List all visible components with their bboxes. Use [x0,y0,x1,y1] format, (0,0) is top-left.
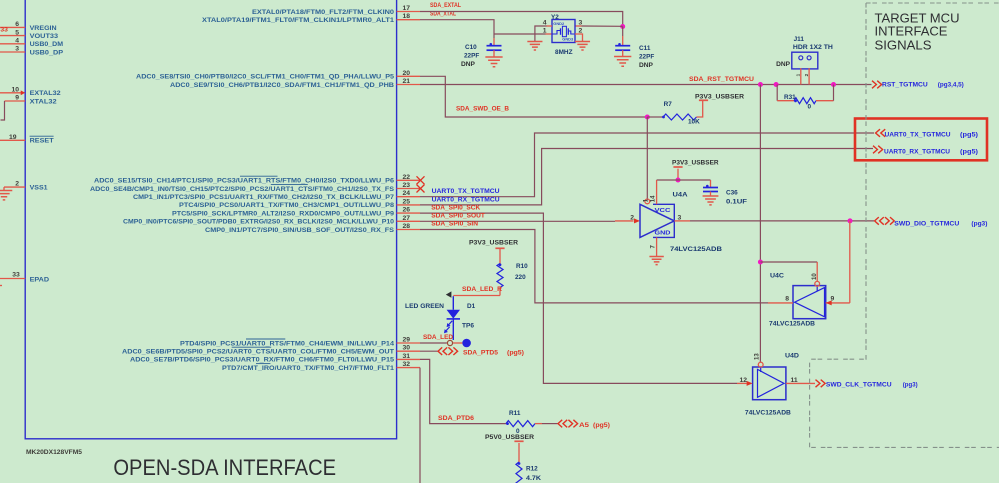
pin 22 stub [397,179,420,181]
pin 26 stub [397,212,420,214]
svg-text:4.7K: 4.7K [526,475,541,482]
svg-text:SWD_CLK_TGTMCU: SWD_CLK_TGTMCU [826,381,892,388]
svg-text:2: 2 [804,73,809,76]
svg-text:6: 6 [15,21,19,28]
svg-text:13: 13 [754,353,760,360]
node junction R31 left [774,82,779,87]
header J11 body [792,52,818,69]
svg-text:SDA_SPI0_SIN: SDA_SPI0_SIN [431,221,478,228]
U4D output lead pin 11 [786,382,815,384]
svg-text:(pg5): (pg5) [960,132,978,139]
svg-text:UART0_RX_TGTMCU: UART0_RX_TGTMCU [432,196,500,203]
svg-text:SDA_LED_R: SDA_LED_R [462,286,502,293]
svg-text:DNP: DNP [776,61,791,68]
svg-text:VSS1: VSS1 [30,185,48,192]
wire branch to U4C enable [760,261,817,263]
wire pin31 SDA_PTD6 down and right [420,359,506,423]
pin 21 stub [397,84,420,86]
red highlight box around UART ports [855,119,987,161]
node SWD_DIO junction [848,218,853,223]
svg-text:VOUT33: VOUT33 [30,33,59,40]
pin 4 USB0_DM wire [0,43,25,45]
pin 5 VOUT33 wire [0,35,25,37]
svg-text:R11: R11 [509,410,521,417]
wire rail to U4A VCC and C36 [657,179,711,181]
supply P3V3_USBSER above U4A [673,166,682,168]
wire R11 to port A5 [542,423,558,425]
pin 32 stub [397,367,420,369]
node EXTAL junction [620,24,625,29]
crystal Y2 body [552,20,575,43]
wire XTAL32 net to left edge [1,101,5,120]
svg-text:Y2: Y2 [551,14,559,21]
ground under C36 [703,196,719,205]
LED cathode lead [452,319,454,340]
U4C output lead pin 8 [768,302,793,304]
dashed target-interface border [866,2,999,4]
op-amp buffer U4A triangle [640,204,674,237]
svg-text:11: 11 [791,377,798,384]
U4D input lead pin 12 [737,382,747,384]
supply P3V3_USBSER above R10 [495,247,504,249]
J11 pin 1 circle [799,56,803,60]
svg-text:10: 10 [812,273,818,280]
node enable branch junction [758,260,763,265]
svg-text:EPAD: EPAD [30,276,50,283]
ground at crystal pin 2 [575,42,590,51]
svg-text:8: 8 [785,295,789,302]
svg-text:U4C: U4C [770,273,784,280]
wire C11 lead from junction [622,27,624,37]
pin 27 stub [397,220,420,222]
svg-text:R10: R10 [516,263,528,270]
wire SDA_SPI0_SOUT pin27 to U4A input [420,220,615,222]
svg-text:20: 20 [403,70,411,77]
svg-text:P3V3_USBSER: P3V3_USBSER [469,240,518,247]
U4A enable pin 1 wire [646,117,648,199]
U4D enable circle pin 13 [758,362,763,367]
svg-text:C10: C10 [465,44,477,51]
svg-text:SDA_SPI0_SOUT: SDA_SPI0_SOUT [431,213,486,220]
R11 right lead [535,423,542,425]
test point TP6 dot [462,339,471,348]
wire SDA_LED_R to LED anode [453,295,500,297]
node OE junction [645,115,650,120]
LED D1 anode lead [452,296,454,310]
svg-text:C11: C11 [639,45,651,52]
svg-text:HDR 1X2 TH: HDR 1X2 TH [793,44,833,51]
svg-text:23: 23 [403,182,411,189]
svg-text:J11: J11 [794,36,805,43]
svg-text:U4D: U4D [785,352,799,359]
svg-text:(pg5): (pg5) [960,149,978,156]
svg-text:31: 31 [403,353,411,360]
svg-text:SDA_PTD6: SDA_PTD6 [438,415,474,422]
svg-text:USB0_DP: USB0_DP [30,49,64,56]
svg-text:R31: R31 [784,94,796,101]
wire enable net vertical from RST junction [759,85,761,363]
pin 23 stub [397,188,420,190]
wire crystal pin1 to XTAL net [494,33,546,35]
LED emission arrows [448,321,452,326]
resistor R11 [506,421,535,427]
no-connect X pin 23 [417,185,425,193]
node junction R31 right [831,82,836,87]
svg-text:XTAL32: XTAL32 [30,98,58,105]
op-amp buffer U4D body [753,367,786,400]
svg-text:2: 2 [630,214,634,221]
svg-text:SDA_SWD_OE_B: SDA_SWD_OE_B [456,106,509,113]
svg-text:GND2: GND2 [553,21,565,26]
port RST_TGTMCU chevron [872,81,882,89]
wire supply to rail [677,169,679,180]
U4A input lead pin 2 [615,220,634,222]
U4D triangle [758,369,785,397]
svg-text:2: 2 [15,181,19,188]
svg-text:ADC0_SE6B/PTD5/SPI0_PCS2/UART0: ADC0_SE6B/PTD5/SPI0_PCS2/UART0_CTS/UART0… [122,349,394,356]
pin 17 stub [397,11,420,13]
port SWD_CLK_TGTMCU chevron [816,380,826,388]
wire junction to R7 [647,116,663,118]
svg-text:28: 28 [403,223,411,230]
svg-text:17: 17 [403,5,411,12]
wire SDA_SWD_OE_B from pin20 [420,76,647,117]
svg-text:XTAL0/PTA19/FTM1_FLT0/FTM_CLKI: XTAL0/PTA19/FTM1_FLT0/FTM_CLKIN1/LPTMR0_… [202,17,395,24]
svg-text:VCC: VCC [655,208,672,214]
U4A output lead pin 3 [674,220,690,222]
svg-text:74LVC125ADB: 74LVC125ADB [745,410,791,417]
supply P5V0_USBSER bar [514,440,523,442]
R10 bottom lead [499,288,501,296]
svg-text:29: 29 [403,337,411,344]
pin 2 VSS1 wire [4,186,25,188]
svg-text:9: 9 [15,95,19,102]
resistor R12 (clipped at bottom) [516,462,522,483]
svg-text:3: 3 [579,20,583,27]
ground at crystal pin 4 [527,42,542,51]
svg-text:PTC4/SPI0_PCS0/UART1_TX/FTM0_C: PTC4/SPI0_PCS0/UART1_TX/FTM0_CH3/CMP1_OU… [179,202,394,209]
resistor R7 [663,114,696,120]
wire pin29 to test pad [420,342,447,344]
svg-text:MK20DX128VFM5: MK20DX128VFM5 [26,449,83,456]
pin 24 stub [397,196,420,198]
svg-text:SIGNALS: SIGNALS [875,39,932,53]
svg-text:P3V3_USBSER: P3V3_USBSER [672,159,719,166]
svg-text:P5V0_USBSER: P5V0_USBSER [485,434,534,441]
svg-text:22PF: 22PF [639,54,654,61]
svg-text:30: 30 [403,345,411,352]
node junction enable riser [758,82,763,87]
svg-text:UART0_TX_TGTMCU: UART0_TX_TGTMCU [432,188,500,195]
capacitor C11 [615,45,630,47]
svg-text:33: 33 [0,27,8,34]
op-amp buffer U4C body [793,286,826,319]
overline UART0_RTS row29 [246,338,285,340]
R31 right lead [816,100,834,102]
test pad circle [447,340,452,345]
U4C triangle [795,288,825,317]
pin 28 stub [397,229,420,231]
port UART0_RX_TGTMCU chevron [873,146,883,154]
svg-text:(pg5): (pg5) [593,422,610,429]
svg-text:24: 24 [403,190,411,197]
svg-text:UART0_TX_TGTMCU: UART0_TX_TGTMCU [885,132,951,139]
svg-text:3: 3 [678,214,682,221]
resistor R10 [497,264,503,288]
svg-text:0: 0 [808,104,812,111]
wire crystal pin 2 to ground [575,34,583,42]
svg-text:(pg5): (pg5) [507,349,524,356]
J11 pin 2 lead [808,68,810,84]
svg-text:14: 14 [650,195,656,202]
svg-text:EXTAL32: EXTAL32 [30,90,61,97]
clipped red mark lower left edge [0,285,2,287]
C11 lead to ground [622,50,624,56]
svg-text:ADC0_SE9/TSI0_CH6/PTB1/I2C0_SD: ADC0_SE9/TSI0_CH6/PTB1/I2C0_SDA/FTM1_CH1… [170,82,394,89]
svg-text:12: 12 [739,377,747,384]
svg-text:5: 5 [15,29,19,36]
wire U4A pin14 drop [656,180,658,204]
svg-text:(pg3,4,5): (pg3,4,5) [938,81,964,88]
svg-text:ADC0_SE7B/PTD6/SPI0_PCS3/UART0: ADC0_SE7B/PTD6/SPI0_PCS3/UART0_RX/FTM0_C… [130,357,394,364]
pin 31 stub [397,358,420,360]
svg-text:R7: R7 [664,101,673,108]
wire U4C input riser to SWD_DIO [849,221,851,303]
svg-text:32: 32 [403,361,411,368]
ground under C11 [614,57,631,67]
U4C input lead pin 9 [826,302,850,304]
pin 19 RESET wire [0,139,25,141]
wire EXTAL net pin17 to crystal/C11 [420,12,623,27]
svg-text:4: 4 [15,38,19,45]
wire pin32 down to bottom edge [419,368,421,483]
svg-text:SDA_SPI0_SCK: SDA_SPI0_SCK [431,204,480,211]
svg-text:CMP0_IN0/PTC6/SPI0_SOUT/PDB0_E: CMP0_IN0/PTC6/SPI0_SOUT/PDB0_EXTRG/I2S0_… [123,219,394,226]
svg-text:ADC0_SE8/TSI0_CH0/PTB0/I2C0_SC: ADC0_SE8/TSI0_CH0/PTB0/I2C0_SCL/FTM1_CH0… [136,74,394,81]
capacitor C36 lead [710,180,712,188]
svg-text:74LVC125ADB: 74LVC125ADB [670,246,722,253]
svg-text:TP6: TP6 [462,323,474,330]
svg-text:SDA_PTD5: SDA_PTD5 [463,349,498,356]
svg-text:GND3: GND3 [562,37,574,42]
pin 9 XTAL32 wire [5,100,26,102]
svg-text:DNP: DNP [639,62,654,69]
no-connect X pin 22 [417,176,425,184]
svg-text:0.1UF: 0.1UF [726,199,747,206]
pin 33 EPAD wire [0,278,25,280]
svg-text:CMP0_IN1/PTC7/SPI0_SIN/USB_SOF: CMP0_IN1/PTC7/SPI0_SIN/USB_SOF_OUT/I2S0_… [205,227,395,234]
svg-text:A5: A5 [579,422,589,429]
pin 10 EXTAL32 wire with clock arrow [0,92,22,94]
svg-text:RESET: RESET [30,138,54,145]
C36 lead to ground [710,192,712,197]
svg-text:LED GREEN: LED GREEN [405,303,444,310]
R31 left lead [776,85,778,101]
svg-text:19: 19 [9,134,17,141]
svg-text:ADC0_SE15/TSI0_CH14/PTC1/SPI0_: ADC0_SE15/TSI0_CH14/PTC1/SPI0_PCS3/UART1… [94,178,394,185]
svg-text:PTD7/CMT_IRO/UART0_TX/FTM0_CH7: PTD7/CMT_IRO/UART0_TX/FTM0_CH7/FTM0_FLT1 [222,365,394,372]
crystal Y2 symbol [553,31,561,35]
svg-text:21: 21 [403,78,411,85]
svg-text:PTD4/SPI0_PCS1/UART0_RTS/FTM0_: PTD4/SPI0_PCS1/UART0_RTS/FTM0_CH4/EWM_IN… [180,340,394,347]
ground at U4A pin 7 [649,257,663,265]
R7 lead to supply [697,101,703,117]
svg-text:SDA_LED: SDA_LED [423,334,453,341]
port SWD_DIO_TGTMCU chevron [875,217,884,225]
U4C enable stub [816,286,818,291]
svg-text:OPEN-SDA INTERFACE: OPEN-SDA INTERFACE [113,455,336,480]
svg-text:18: 18 [403,13,411,20]
capacitor C10 [487,45,502,47]
svg-text:ADC0_SE4B/CMP1_IN0/TSI0_CH15/P: ADC0_SE4B/CMP1_IN0/TSI0_CH15/PTC2/SPI0_P… [90,186,395,193]
overline UART0_CTS row30 [232,346,272,348]
svg-text:D1: D1 [467,303,476,310]
ground at VSS1 (clipped at left edge) [3,187,5,190]
wire UART0_TX net pin24 riser [420,133,874,197]
U4C enable circle pin 10 [815,281,820,286]
svg-text:EXTAL0/PTA18/FTM0_FLT2/FTM_CLK: EXTAL0/PTA18/FTM0_FLT2/FTM_CLKIN0 [252,9,395,16]
svg-text:P3V3_USBSER: P3V3_USBSER [695,94,744,101]
svg-text:1: 1 [543,28,547,35]
test pad to TP6 wire [453,342,462,344]
svg-text:UART0_RX_TGTMCU: UART0_RX_TGTMCU [884,149,950,156]
capacitor C36 [703,187,718,189]
IC U1 MK20DX128VFM5 body outline [25,0,396,439]
port UART0_TX_TGTMCU chevron [876,129,886,137]
pin 30 stub [397,350,420,352]
svg-text:VREGIN: VREGIN [30,25,57,32]
svg-text:CMP1_IN1/PTC3/SPI0_PCS1/UART1_: CMP1_IN1/PTC3/SPI0_PCS1/UART1_RX/FTM0_CH… [133,194,394,201]
port A5 chevron [558,420,567,428]
svg-text:22: 22 [403,174,411,181]
wire SDA_SPI0_SCK pin26 to U4D input [420,213,737,383]
svg-text:3: 3 [15,46,19,53]
U4A enable circle pin 1 [645,199,650,204]
node rail junction [676,178,681,183]
pin 29 stub [397,342,420,344]
wire SWD_DIO net to port [690,220,874,222]
svg-text:33: 33 [12,272,20,279]
wire pin30 to port [420,350,438,352]
wire UART0_RX net pin25 riser [420,149,873,205]
svg-text:TARGET MCU: TARGET MCU [875,12,960,26]
svg-text:9: 9 [831,295,835,302]
R12 top lead [518,443,520,462]
svg-text:8MHZ: 8MHZ [555,49,573,56]
port SDA_PTD5 chevron [438,347,447,355]
wire SDA_SPI0_SIN pin28 to U4C output [420,230,768,303]
svg-text:GND: GND [655,231,671,237]
pin 25 stub [397,204,420,206]
R10 top lead [499,249,501,264]
svg-text:SWD_DIO_TGTMCU: SWD_DIO_TGTMCU [894,220,959,227]
C10 lead to ground [493,50,495,57]
svg-text:C36: C36 [726,190,738,197]
svg-text:27: 27 [403,215,411,222]
wire crystal pin3 to EXTAL net [575,25,582,27]
wire SDA_RST_TGTMCU from pin21 [420,84,872,86]
wire XTAL net pin18 to crystal/C10 [420,20,494,38]
svg-text:22PF: 22PF [464,53,479,60]
svg-text:26: 26 [403,207,411,214]
pin 20 stub [397,75,420,77]
supply P3V3_USBSER at R7 [699,99,708,101]
pin 18 stub [397,19,420,21]
overline CMT_IRO row32 [256,363,270,365]
pin 3 USB0_DP wire [0,51,25,53]
U4A pin 7 ground lead [656,237,658,256]
wire crystal pin 4 to ground [547,25,553,27]
svg-text:USB0_DM: USB0_DM [30,41,64,48]
svg-text:10: 10 [11,86,19,93]
svg-text:R12: R12 [526,466,538,473]
svg-text:INTERFACE: INTERFACE [875,25,948,39]
svg-text:(pg3): (pg3) [971,220,987,227]
J11 pin 2 circle [807,56,811,60]
svg-text:10K: 10K [688,119,700,126]
svg-text:74LVC125ADB: 74LVC125ADB [769,321,815,328]
pin 6 VREGIN wire [0,26,25,28]
overline UART1_CTS row23 [271,183,308,185]
svg-text:SDA_EXTAL: SDA_EXTAL [430,2,461,9]
svg-text:220: 220 [515,274,526,281]
svg-text:(pg3): (pg3) [903,381,918,388]
ground under C10 [485,57,502,67]
resistor R31 [794,98,816,104]
tiny anchor arrow at corner [446,291,452,297]
svg-text:U4A: U4A [673,192,688,199]
svg-text:1: 1 [795,73,800,76]
svg-text:PTC5/SPI0_SCK/LPTMR0_ALT2/I2S0: PTC5/SPI0_SCK/LPTMR0_ALT2/I2S0_RXD0/CMP0… [172,210,394,217]
svg-text:DNP: DNP [461,61,476,68]
svg-text:25: 25 [403,198,411,205]
svg-text:RST_TGTMCU: RST_TGTMCU [882,81,928,88]
LED D1 [447,310,460,319]
J11 pin 1 lead [800,68,802,84]
overline UART1_RTS row22 [240,175,278,177]
U4D enable stub [760,367,762,372]
svg-text:SDA_RST_TGTMCU: SDA_RST_TGTMCU [689,76,754,83]
